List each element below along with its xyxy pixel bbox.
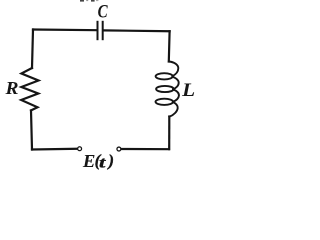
- wire right lower: [168, 117, 170, 150]
- stray scan marks at top edge (unlabeled artifacts): [80, 0, 98, 2]
- terminal right: [117, 147, 121, 151]
- svg-text:L: L: [181, 81, 195, 101]
- capacitor C plate right: [102, 22, 104, 39]
- terminal left: [78, 147, 82, 151]
- wire top-left: [33, 28, 97, 31]
- inductor L: [156, 62, 179, 117]
- svg-text:): ): [106, 151, 114, 170]
- svg-text:E: E: [82, 151, 96, 171]
- wire bottom-right: [122, 148, 170, 150]
- wire left upper: [32, 30, 33, 69]
- capacitor C plate left: [97, 22, 99, 39]
- resistor R: [21, 68, 38, 110]
- wire bottom-left: [32, 148, 77, 151]
- svg-text:C: C: [98, 2, 108, 23]
- wire top-right: [104, 29, 170, 32]
- label E(t): [82, 151, 114, 172]
- wire left lower: [31, 111, 32, 150]
- wire right upper: [168, 31, 171, 61]
- svg-text:R: R: [4, 78, 18, 98]
- svg-text:t: t: [99, 154, 106, 171]
